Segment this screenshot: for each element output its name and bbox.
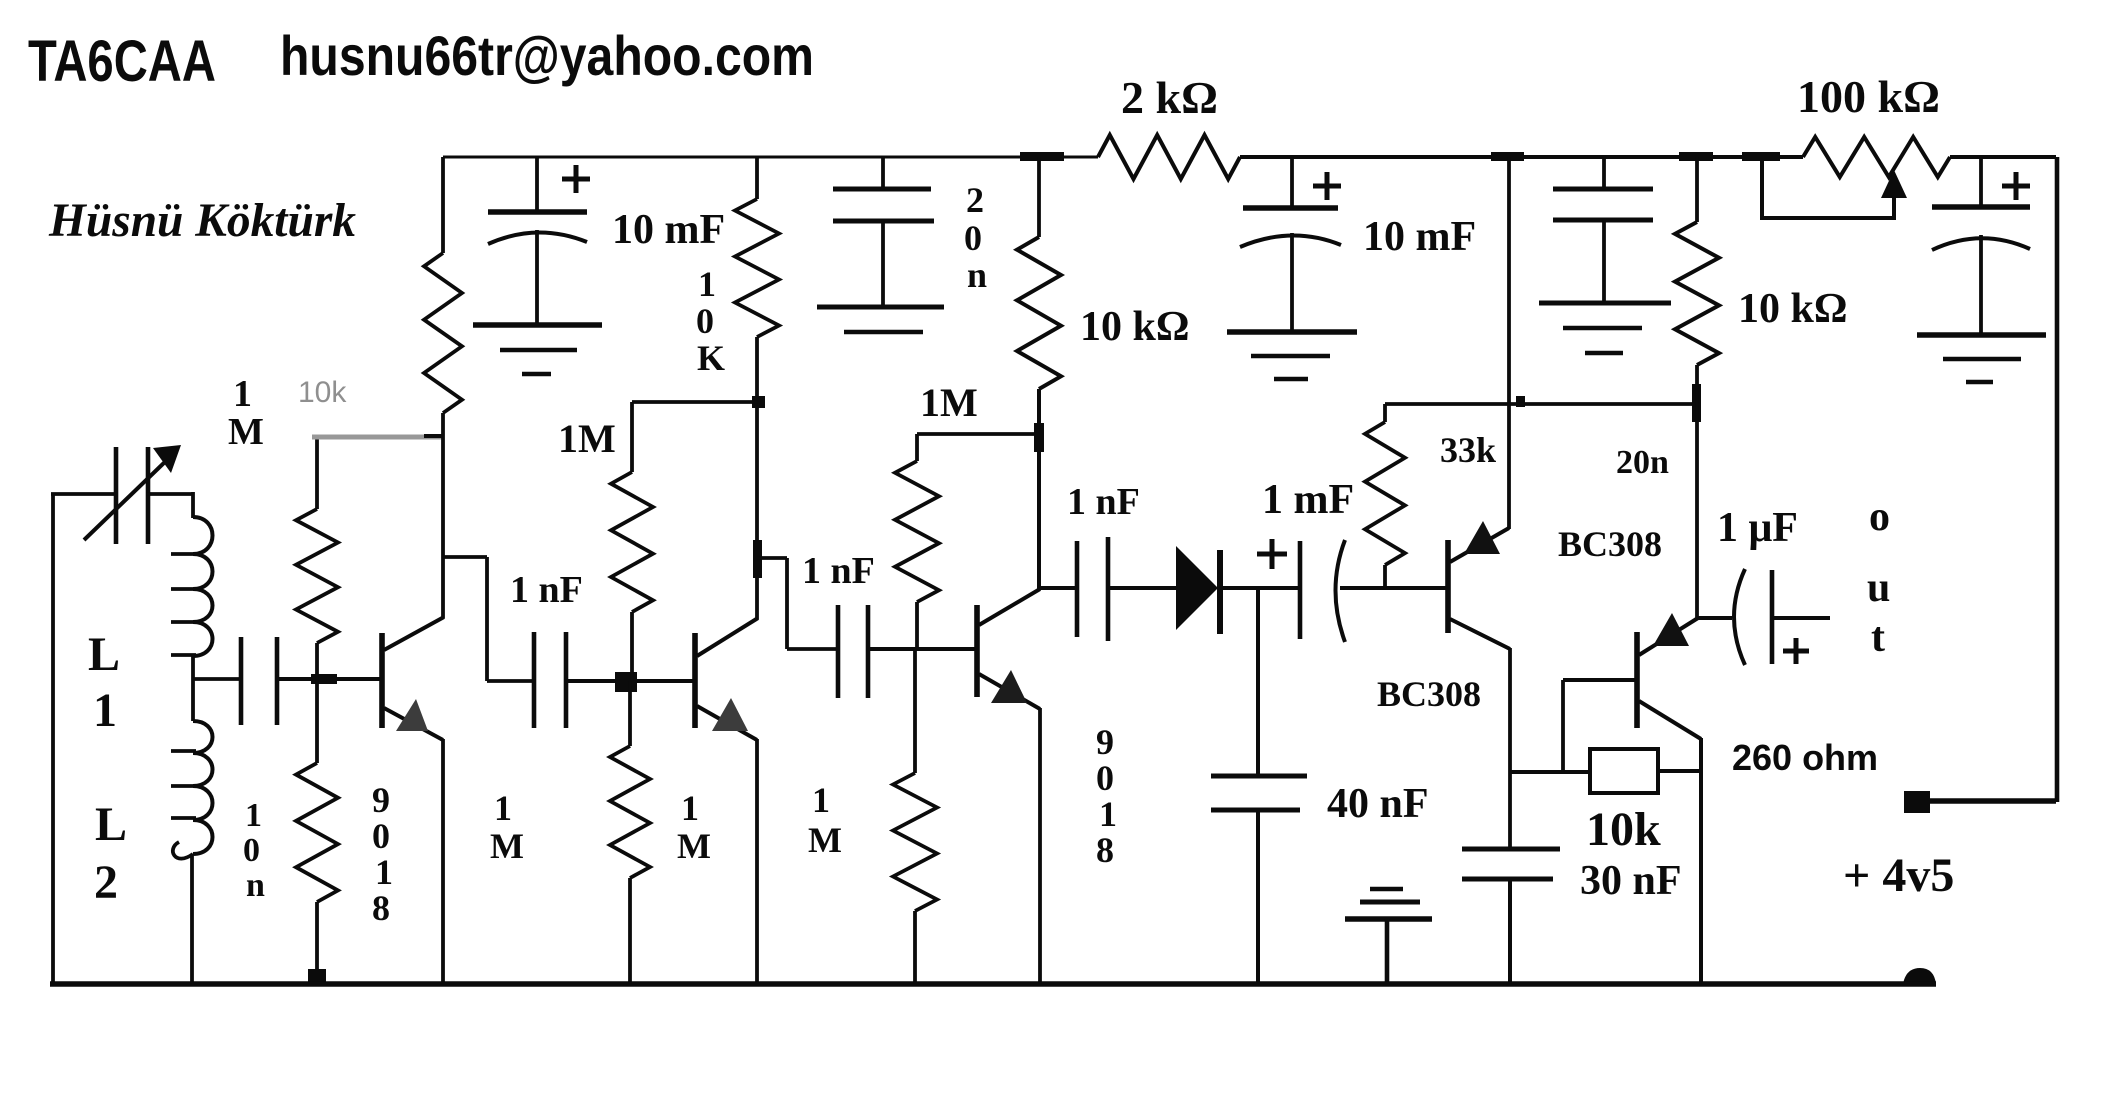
wire 33k top link [1385,402,1697,406]
capacitor C10n plate right [275,637,280,725]
wire R1M stage2 top link [632,400,758,404]
wire right border vertical [2055,157,2060,802]
svg-text:L: L [88,628,120,681]
capacitor C1uF curved plate [1734,569,1745,665]
plus sign C1uF [1783,649,1809,654]
capacitor C1nF2 plate left [836,605,841,698]
wire node to C40nF [1256,588,1260,776]
capacitor C20n2 bottom plate [1553,218,1653,223]
capacitor C10mF2 lower stem [1290,233,1294,332]
wire C10n to Q1 base [277,677,381,681]
terminal out square [1904,791,1930,813]
svg-text:9: 9 [1096,722,1114,762]
capacitor C1nF2 plate right [866,605,871,698]
resistor R33k [1383,404,1387,422]
wire Q5 base drop [1561,680,1565,772]
svg-text:20n: 20n [1616,444,1669,481]
svg-text:260 ohm: 260 ohm [1732,737,1878,778]
svg-text:33k: 33k [1440,430,1496,470]
junction bold stage3 top [1034,423,1044,452]
wire C1nF3 to diode [1108,586,1178,590]
wire C30nF to rail [1508,879,1512,986]
svg-text:1: 1 [233,373,252,415]
svg-text:0: 0 [372,816,390,856]
junction bold Q2 top [752,396,765,408]
junction bold x1697 y404 [1692,384,1701,422]
svg-text:30 nF: 30 nF [1580,858,1682,904]
wire Q1 collector stub to C1nF [443,555,487,559]
svg-text:1: 1 [812,780,830,820]
capacitor C10mF2 curved plate [1240,235,1341,247]
arrow of variable capacitor [84,459,168,540]
svg-text:1M: 1M [558,416,616,461]
wire top rail right segment [1950,155,2056,159]
capacitor C30nF bottom plate [1462,877,1553,882]
capacitor Cfilter curved plate [1932,238,2030,250]
junction node Q1 base [311,674,337,684]
wire 10K to Q2 collector [755,337,759,619]
transistor Q4 emitter diagonal [1450,528,1509,562]
junction rail bold at x1040 [1020,152,1064,161]
wire bottom ground rail [50,981,1936,987]
transistor Q3 emitter diagonal [979,674,1040,709]
svg-text:2: 2 [966,180,984,220]
svg-text:40 nF: 40 nF [1327,781,1429,827]
ground inverted bars [1370,887,1403,892]
arrow pot wiper [1881,170,1907,198]
svg-text:1M: 1M [920,380,978,425]
capacitor Cfilter top plate [1932,204,2030,210]
transistor Q2 emitter diagonal [697,706,757,740]
wire 10K top [755,157,759,199]
capacitor C1nF1 plate left [532,632,537,728]
wire Q5 emitter junction vertical [1695,404,1699,618]
resistor R1M stage2 upper [630,402,634,472]
wire 10kOhm2 rail drop [1695,157,1699,222]
capacitor C1mF curved plate [1336,540,1346,642]
wire tap to C10n [193,677,240,681]
junction bold Q2 collector nub [753,540,762,578]
wire R upper to base node [315,643,319,679]
arrow Q1 emitter [396,699,428,731]
wire C1nF1 to Q2 base [566,679,693,683]
resistor R2k 2 kOhm horizontal [1098,135,1240,179]
capacitor C30nF top plate [1462,847,1560,852]
transistor Q2 collector diagonal [697,618,758,656]
svg-text:M: M [677,826,711,866]
wire C1mF to Q4 base [1340,586,1446,590]
capacitor C20n2 stem [1602,157,1606,189]
svg-text:10 kΩ: 10 kΩ [1738,286,1848,332]
ground Cfilter [1917,332,2046,338]
wire diode to node [1223,586,1300,590]
capacitor Cfilter lower stem [1979,235,1983,335]
junction rail bold at x1510 [1491,152,1524,161]
resistor R1M stage2 lower [628,681,632,746]
svg-text:o: o [1869,494,1890,540]
ground C10mF2 [1227,329,1357,335]
wire Q5 collector to rail [1699,738,1703,986]
wire 10kOhm to Q3 collector [1037,389,1041,590]
ground C10mF1 [473,322,602,328]
transistor Q1 bar [379,633,385,728]
capacitor C20n1 lower stem [881,221,885,307]
svg-text:M: M [490,826,524,866]
arrow Q4 emitter [1464,521,1500,554]
wire C1uF out [1772,616,1830,620]
svg-text:8: 8 [372,888,390,928]
capacitor C20n1 stem [881,157,885,189]
transistor Q1 emitter diagonal [384,708,443,740]
capacitor C10mF1 stem [535,157,539,212]
resistor R1M stage3 upper [915,434,919,461]
junction rail bold at x1762 [1742,152,1780,161]
inductor L2 [193,721,213,753]
svg-text:1 nF: 1 nF [1067,481,1140,523]
svg-text:1 nF: 1 nF [802,550,875,592]
svg-text:1 mF: 1 mF [1262,477,1354,523]
wire L2 bottom to ground rail [190,854,194,986]
svg-text:1: 1 [93,684,117,737]
resistor R10kOhm second [1675,222,1719,365]
svg-text:t: t [1871,615,1885,661]
transistor Q4 collector diagonal [1450,619,1510,649]
wire collector rail drop Q1 [441,157,445,253]
svg-text:M: M [808,820,842,860]
junction tick y404 [1516,396,1525,407]
svg-text:TA6CAA: TA6CAA [28,29,216,94]
svg-text:10 mF: 10 mF [612,207,725,253]
svg-text:0: 0 [1096,758,1114,798]
svg-text:10k: 10k [1586,803,1661,856]
wire Q3 collector to C1nF3 [1039,586,1077,590]
svg-text:8: 8 [1096,830,1114,870]
svg-text:M: M [228,411,264,453]
capacitor C20n1 top plate [833,187,931,192]
svg-text:BC308: BC308 [1558,524,1662,564]
capacitor C20n2 top plate [1553,187,1653,192]
svg-text:2 kΩ: 2 kΩ [1121,72,1218,123]
svg-text:0: 0 [243,832,260,869]
wire Q2 collector stub [757,556,787,560]
svg-text:1 μF: 1 μF [1717,505,1798,551]
svg-text:10k: 10k [298,376,347,409]
svg-text:n: n [246,867,265,904]
capacitor C10mF1 lower stem [535,230,539,325]
capacitor C1uF plate right [1770,570,1775,664]
capacitor C20n2 lower stem [1602,220,1606,303]
transistor Q1 collector diagonal [384,617,444,650]
svg-text:1: 1 [698,264,716,304]
wire coil top lead [191,492,195,518]
wire C40nF to rail [1256,810,1260,986]
capacitor C10mF1 top plate [488,209,587,215]
svg-text:husnu66tr@yahoo.com: husnu66tr@yahoo.com [280,24,814,87]
svg-text:Hüsnü Köktürk: Hüsnü Köktürk [48,194,356,247]
diode D1 triangle [1176,546,1218,630]
svg-text:1 nF: 1 nF [510,569,583,611]
arrow Q2 emitter [712,698,748,731]
wire left border vertical [51,493,55,986]
transistor Q5 collector diagonal [1639,701,1701,739]
resistor stage1 lower bias [315,679,319,763]
wire R1M stage3 top link [917,432,1040,436]
svg-text:10 kΩ: 10 kΩ [1080,304,1190,350]
junction node Q2 base [615,672,637,692]
wire below collector load [441,413,445,618]
ground inverted stem [1385,919,1390,986]
ground C20n1 [817,305,944,310]
svg-text:0: 0 [964,218,982,258]
transistor Q3 collector diagonal [979,589,1040,625]
transistor Q5 bar [1634,632,1640,728]
capacitor C20n1 bottom plate [833,219,934,224]
resistor R10K stage2 load [735,199,779,337]
svg-text:BC308: BC308 [1377,674,1481,714]
resistor R10k box [1590,749,1658,793]
plus sign detector node [1257,552,1287,557]
capacitor CV variable plate left [114,447,119,544]
plus sign C10mF2 [1313,184,1341,189]
svg-text:1: 1 [245,797,262,834]
resistor R100k 100 kOhm horizontal [1803,137,1950,177]
svg-text:9: 9 [372,780,390,820]
svg-text:100 kΩ: 100 kΩ [1797,71,1940,122]
wire 10kOhm rail drop [1037,157,1041,237]
wire grey link [312,435,443,440]
svg-text:1: 1 [681,788,699,828]
wire collector to box [1510,770,1590,774]
capacitor CV variable plate right [146,447,151,544]
svg-text:L: L [95,798,127,851]
svg-text:1: 1 [494,788,512,828]
wire Q4 collector down [1508,648,1512,849]
wire tank top left [51,492,118,496]
ground C20n2 [1539,301,1671,306]
capacitor Cfilter stem [1979,157,1983,207]
arrow Q5 emitter [1653,613,1689,646]
wire Q1 emitter to rail [441,739,445,986]
wire tank top right [146,492,194,496]
svg-text:K: K [697,338,725,378]
wire pot wiper detour [1762,157,1894,218]
capacitor C10mF1 curved plate [488,232,587,244]
capacitor C10mF2 stem [1290,157,1294,208]
svg-text:10 mF: 10 mF [1363,214,1476,260]
svg-text:1: 1 [375,852,393,892]
svg-text:n: n [967,255,987,295]
diode D1 cathode bar [1217,550,1223,634]
capacitor C1nF1 plate right [564,632,569,728]
wire top rail middle segment [1240,155,1803,159]
arrow Q3 emitter [991,670,1027,703]
wire top rail left segment [443,156,1098,159]
transistor Q2 bar [692,633,698,728]
wire Q5 base [1563,678,1635,682]
transistor Q4 bar [1445,540,1451,633]
wire coil tap segment [191,656,195,721]
wire Q3 emitter to rail [1038,708,1042,986]
svg-text:1: 1 [1099,794,1117,834]
wire Q5 emitter to C1uF [1697,616,1732,620]
capacitor C10mF2 top plate [1243,205,1338,211]
wire 10kOhm2 bottom [1695,365,1699,406]
wire Q4 emitter rail drop [1507,157,1511,529]
svg-text:2: 2 [94,856,118,909]
plus sign C10mF1 [562,177,590,182]
junction rail bold at x1697 [1679,152,1713,161]
resistor R10kOhm stage3 load [1017,237,1061,389]
wire C1nF2 to Q3 base [868,647,975,651]
svg-text:u: u [1867,565,1890,611]
transistor Q5 emitter diagonal [1639,618,1698,655]
capacitor C10n plate left [239,637,244,725]
capacitor C1mF plate left [1298,541,1303,639]
capacitor C40nF bottom plate [1211,808,1300,813]
inductor L1 [193,517,213,554]
terminal bottom bump [1903,968,1936,984]
plus sign Cfilter [2002,184,2030,189]
resistor R1M stage1 upper bias [315,437,319,509]
junction blob stage1 bottom [308,969,326,984]
transistor Q3 bar [974,605,980,697]
capacitor C40nF top plate [1211,774,1307,779]
resistor R1M stage3 lower [913,649,917,773]
capacitor C1nF3 plate left [1075,541,1080,637]
wire box to Q5 collector line [1658,769,1701,773]
wire Q2 emitter to rail [755,739,759,986]
svg-text:0: 0 [696,301,714,341]
resistor stage1 collector load [424,253,462,413]
svg-text:+ 4v5: + 4v5 [1843,849,1954,902]
wire out terminal line [1930,798,2056,804]
capacitor C1nF3 plate right [1106,537,1111,641]
